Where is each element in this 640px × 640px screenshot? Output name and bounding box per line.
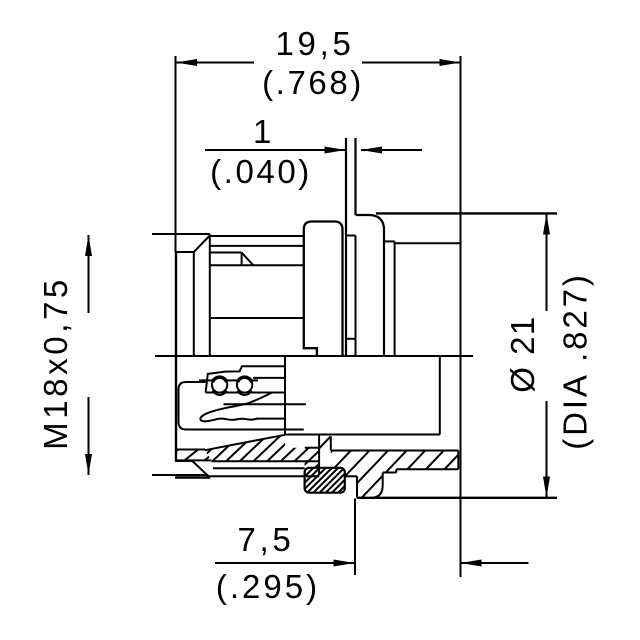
arrowhead M18 down: [85, 454, 92, 475]
flange rear edge upper: [354, 138, 356, 215]
svg-text:Ø 21: Ø 21: [504, 315, 541, 393]
arrowhead dia21 down: [543, 477, 550, 498]
body inner vertical: [394, 241, 396, 356]
body shoulder with corner: [356, 215, 385, 356]
hatching: shell wall wedge left: [195, 331, 295, 556]
arrowhead dia21 up: [543, 214, 550, 235]
collar outline: [304, 222, 343, 357]
bore right edge: [439, 356, 441, 435]
flange rear edge lower: [355, 236, 357, 357]
contact socket 1: [212, 377, 227, 392]
M18 extension line top / nut top edge: [152, 233, 210, 235]
extension line right / body right face (x=460.5): [460, 56, 462, 577]
section line y476: [208, 475, 319, 477]
nut top shoulder line: [175, 251, 194, 253]
M18 dimension line lower: [88, 397, 90, 475]
flange slot wall: [318, 435, 320, 475]
insert block right edge: [284, 356, 286, 435]
svg-text:19,5: 19,5: [275, 25, 354, 62]
body bottom edge with extension: [357, 497, 557, 499]
hatching: coupling nut wall section: [165, 398, 223, 508]
nut wall section top edge: [176, 449, 205, 451]
section wedge top diagonal: [205, 435, 285, 450]
wedge top edge right: [331, 450, 459, 452]
M18 extension line bottom: [152, 474, 207, 476]
dimension line 1mm left: [205, 149, 345, 151]
shell top edge: [210, 235, 304, 237]
nut top chamfer diagonal: [194, 236, 210, 253]
arrowhead 1mm left-pointing: [361, 147, 382, 154]
dimension line 19.5 left segment: [176, 62, 255, 64]
wedge foot with arc: [371, 473, 383, 498]
gasket (sealing ring): [305, 468, 345, 493]
contact lamella line 1: [253, 377, 285, 379]
dimension line 19.5 right segment: [362, 62, 461, 64]
svg-text:(DIA .827): (DIA .827): [557, 272, 594, 450]
thread runout diagonal: [242, 253, 254, 266]
wedge step vertical: [395, 469, 397, 472]
arrowhead M18 up: [85, 235, 92, 256]
arrowhead 7.5 left-pointing: [461, 560, 482, 567]
nut right face upper: [209, 234, 211, 356]
svg-text:7,5: 7,5: [238, 521, 295, 558]
svg-text:M18x0,75: M18x0,75: [37, 276, 74, 450]
nut chamfer tangent line: [193, 252, 195, 356]
wedge step horizontal: [383, 472, 397, 474]
contact socket 2: [237, 377, 252, 392]
shell lip vertical: [356, 476, 358, 498]
thread relief line: [210, 252, 242, 254]
section small top edge: [305, 447, 319, 449]
svg-text:1: 1: [253, 113, 274, 150]
dimension line 7.5 right tail: [461, 562, 529, 564]
extension line 7.5 left (x=355): [354, 499, 356, 576]
shell second edge: [210, 245, 304, 247]
svg-text:(.768): (.768): [262, 64, 364, 101]
dimension line 7.5 left: [215, 562, 354, 564]
arrowhead 1mm right-pointing: [325, 147, 346, 154]
insert top outline: [206, 366, 285, 392]
slot step diagonal: [320, 437, 331, 449]
centerline: [155, 355, 473, 357]
bore bottom edge: [285, 434, 440, 436]
nut bottom chamfer diagonal: [193, 462, 209, 477]
wire squiggle: [200, 393, 271, 422]
body bore top edge: [395, 242, 461, 244]
flange crossbar upper: [346, 235, 356, 237]
insert bottom edge: [206, 392, 285, 394]
dia21 dimension line lower: [546, 401, 548, 497]
wedge bottom edge right: [396, 468, 458, 470]
section line y461: [212, 460, 320, 462]
contact line right segment: [253, 379, 259, 381]
svg-text:(.295): (.295): [216, 568, 320, 605]
hatching: shell wall above gasket: [275, 389, 330, 532]
nut bottom face: [175, 476, 210, 478]
section line y468: [213, 467, 305, 469]
body top edge with extension: [376, 212, 557, 214]
nut cavity rounded outline: [179, 382, 304, 430]
wedge right edge: [457, 451, 459, 470]
shell inner edge line: [211, 317, 304, 319]
dimension line 1mm right: [361, 149, 422, 151]
svg-text:(.040): (.040): [210, 153, 312, 190]
contact tail line: [224, 403, 306, 405]
nut wall section bottom edge: [176, 459, 211, 461]
dia21 dimension line upper: [546, 214, 548, 312]
slot step vertical: [330, 436, 332, 450]
hatching: gasket section: [295, 408, 355, 555]
arrowhead 19.5 right: [440, 59, 461, 66]
nut bottom shoulder line: [175, 460, 193, 462]
flange crossbar lower: [346, 338, 356, 340]
flange front edge: [345, 138, 347, 356]
contact lamella line 2: [256, 418, 285, 420]
thread runout vertical: [241, 253, 243, 266]
arrowhead 7.5 right-pointing: [334, 560, 355, 567]
hatching: rear shell wall section: [320, 287, 470, 640]
thread root line: [210, 264, 304, 266]
extension line left (x=175.5): [175, 56, 177, 252]
shell lip top: [345, 475, 358, 477]
contact tick left: [199, 379, 212, 381]
contact line mid segment: [228, 379, 238, 381]
body step horizontal: [384, 240, 395, 242]
M18 dimension line upper: [88, 235, 90, 313]
nut left face: [175, 252, 177, 461]
arrowhead 19.5 left: [176, 59, 198, 66]
